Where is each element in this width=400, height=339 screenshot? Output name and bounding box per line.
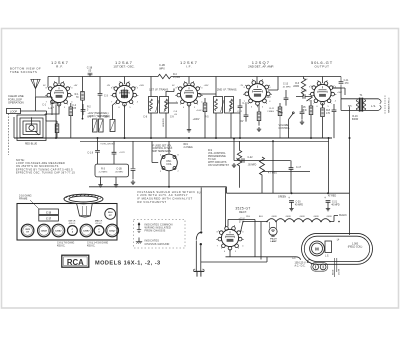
wire V6 cathode down xyxy=(229,249,231,257)
legend dashed box xyxy=(134,220,186,249)
svg-text:L.S.: L.S. xyxy=(371,104,376,108)
wire V5 plate to T1 xyxy=(332,88,345,95)
heater vertical text xyxy=(162,118,165,127)
svg-text:2.2 MEG: 2.2 MEG xyxy=(184,147,193,149)
junction dots xyxy=(55,118,351,194)
svg-text:L.S.: L.S. xyxy=(325,256,329,258)
capacitor C-18 xyxy=(89,74,91,77)
wire hum neut leads xyxy=(335,258,337,277)
wire V5 screen riser xyxy=(322,77,324,84)
wire grid return line xyxy=(262,172,310,194)
ground C-21 xyxy=(326,206,330,211)
svg-text:C-21: C-21 xyxy=(332,202,338,204)
svg-text:R.F.: R.F. xyxy=(56,65,64,69)
ground under coupling xyxy=(232,163,236,168)
svg-text:MODELS 16X-1, -2, -3: MODELS 16X-1, -2, -3 xyxy=(95,261,161,267)
capacitor block C-17 xyxy=(39,215,59,221)
wire AVC bus xyxy=(80,140,329,142)
svg-text:2 MEG: 2 MEG xyxy=(267,111,274,113)
svg-text:COIL: COIL xyxy=(166,163,172,166)
resistor R-4 in B+ line xyxy=(158,74,171,78)
loudspeaker with field coil xyxy=(302,233,373,264)
chassis layout box xyxy=(17,204,117,241)
svg-text:455 KC.: 455 KC. xyxy=(57,246,66,248)
capacitor block C-15 xyxy=(39,209,59,215)
wire V3 plate riser xyxy=(188,77,190,85)
svg-text:SEC: SEC xyxy=(348,105,353,107)
wire osc coil leads xyxy=(152,141,169,187)
tube V6 35Z5GT rectifier xyxy=(216,225,244,252)
wire T2 secondaries down xyxy=(151,113,166,139)
svg-text:C-20: C-20 xyxy=(296,202,302,204)
electrolytic C-22a xyxy=(113,141,115,152)
svg-text:+8V: +8V xyxy=(74,85,78,87)
resistor R-7 grid xyxy=(309,106,313,115)
wire T3 primary riser xyxy=(199,77,216,97)
svg-text:600W: 600W xyxy=(352,118,359,121)
wire right column x328.5 xyxy=(328,138,330,193)
svg-text:AMP TERMINALS: AMP TERMINALS xyxy=(152,150,171,153)
wire T3 secondaries down xyxy=(216,113,231,139)
T1 core xyxy=(359,98,362,112)
resistor R-6 zigzag xyxy=(301,77,305,97)
svg-text:WPX: WPX xyxy=(159,67,165,70)
wire V6 loop xyxy=(226,220,301,260)
junction to speaker field xyxy=(349,193,351,235)
socket circle 5 xyxy=(80,224,93,237)
wire V6 plate riser xyxy=(226,188,229,228)
svg-text:12SK7: 12SK7 xyxy=(83,231,90,233)
svg-text:C-17: C-17 xyxy=(296,167,302,169)
svg-text:GRN: GRN xyxy=(286,216,291,218)
svg-text:C-15: C-15 xyxy=(302,91,308,93)
wire V3 cathode down xyxy=(188,105,190,128)
svg-text:C-15: C-15 xyxy=(46,212,52,214)
svg-text:TUBE SOCKETS: TUBE SOCKETS xyxy=(10,70,37,74)
wire audio line xyxy=(234,160,291,162)
svg-text:OR VOLTOHMYST: OR VOLTOHMYST xyxy=(137,200,167,204)
svg-text:P.U.: P.U. xyxy=(197,193,202,195)
svg-text:BOTTOM VIEW OF: BOTTOM VIEW OF xyxy=(10,67,41,71)
svg-text:GRN: GRN xyxy=(314,216,319,218)
wire T1 return column xyxy=(349,107,351,194)
svg-text:1ST I.F. TRANS.: 1ST I.F. TRANS. xyxy=(149,87,169,91)
wire V1 plate to bus xyxy=(48,77,59,87)
socket 50L6GT top right xyxy=(105,209,116,220)
wire heater feed xyxy=(243,221,267,223)
svg-text:C-12: C-12 xyxy=(237,111,243,113)
wire V2 cathode riser xyxy=(112,102,125,139)
svg-text:40 MFD: 40 MFD xyxy=(331,205,340,207)
svg-text:0V: 0V xyxy=(241,121,244,123)
oscillator coil L2 xyxy=(161,154,178,171)
svg-text:(FIELD COIL): (FIELD COIL) xyxy=(348,246,363,249)
svg-text:RED·BLUE: RED·BLUE xyxy=(25,143,37,146)
capacitor C-4 xyxy=(81,110,86,112)
svg-text:2.2 MEG: 2.2 MEG xyxy=(99,172,108,174)
wire antenna coupling xyxy=(36,97,60,115)
wire lower bus xyxy=(89,187,350,193)
ground R-6 xyxy=(257,127,261,132)
svg-text:M: M xyxy=(315,246,319,251)
svg-text:+90V: +90V xyxy=(139,85,145,87)
svg-text:GRN: GRN xyxy=(327,216,332,218)
svg-text:455 KC: 455 KC xyxy=(69,223,76,225)
speaker plug bracket xyxy=(379,99,382,111)
capacitor C-19 xyxy=(95,151,100,153)
wire T1 bottom to filter xyxy=(349,109,351,111)
tube V3 12SK7 IF amplifier xyxy=(175,81,203,108)
tube V2 12SA7 converter xyxy=(111,81,139,108)
svg-text:EFFECTIVE OSC. TUNING CAP 3: EFFECTIVE OSC. TUNING CAP 367-77.15 xyxy=(16,171,75,174)
resistor R-1 xyxy=(82,77,84,92)
svg-text:RECT.: RECT. xyxy=(239,210,247,214)
capacitor C-10 xyxy=(238,106,243,108)
svg-text:GRN: GRN xyxy=(272,216,277,218)
svg-text:C-1.8: C-1.8 xyxy=(87,153,93,155)
RCA logo box xyxy=(62,255,89,267)
svg-text:250 W: 250 W xyxy=(338,269,340,275)
capacitor right of couplate xyxy=(132,141,134,168)
svg-text:R-11: R-11 xyxy=(269,108,274,110)
speaker terminal strip xyxy=(325,241,332,253)
ground C-20 xyxy=(289,206,293,211)
svg-text:C-10: C-10 xyxy=(242,102,248,105)
svg-text:C-8 & 7-8 GANG: C-8 & 7-8 GANG xyxy=(57,242,74,245)
capacitor C-11 xyxy=(340,77,342,89)
wire top B+ bus xyxy=(48,76,341,78)
svg-text:C-11: C-11 xyxy=(344,80,350,82)
cathode resistor R-8 xyxy=(321,108,325,117)
svg-text:FRAME: FRAME xyxy=(19,197,28,200)
resistor R-2 below V1 xyxy=(70,103,72,107)
svg-text:+: + xyxy=(288,196,290,200)
IF transformer T3 windings xyxy=(214,97,223,114)
svg-text:+90V: +90V xyxy=(265,97,271,99)
svg-text:2ND DET., AF. AMP.: 2ND DET., AF. AMP. xyxy=(248,65,274,69)
wire power cord xyxy=(196,241,267,272)
svg-text:BLUE: BLUE xyxy=(332,269,334,275)
loop terminal box xyxy=(7,109,21,114)
capacitor C-22 in audio line xyxy=(242,158,244,163)
svg-text:455 KC: 455 KC xyxy=(95,223,102,225)
T1 secondary coil xyxy=(363,100,366,110)
wire V2 plate to bus xyxy=(124,77,126,85)
zigzag junction dots xyxy=(266,221,340,223)
wire V5 plate to T1 xyxy=(332,88,341,99)
resistor R-6 xyxy=(257,112,261,121)
text hum neut coil (vertical) xyxy=(332,269,340,275)
svg-text:1ST DET.- OSC.: 1ST DET.- OSC. xyxy=(113,65,134,69)
svg-text:+95V: +95V xyxy=(204,85,210,87)
socket circle 6 xyxy=(94,226,104,236)
svg-text:+100V: +100V xyxy=(193,119,200,121)
svg-text:170: 170 xyxy=(326,112,331,115)
svg-text:220M: 220M xyxy=(293,86,299,88)
socket circle 3 xyxy=(52,224,65,237)
svg-text:HEATER: HEATER xyxy=(162,118,165,127)
AC plug xyxy=(311,263,328,272)
tone capacitor C-14 xyxy=(300,112,305,114)
capacitor C-12 grid xyxy=(244,115,249,117)
svg-text:455 KC.: 455 KC. xyxy=(87,246,96,248)
svg-text:.05 MFD: .05 MFD xyxy=(115,172,124,174)
svg-text:CHASSIS GROUND: CHASSIS GROUND xyxy=(145,243,170,246)
svg-text:A.C.- D.C.: A.C.- D.C. xyxy=(295,265,306,268)
antenna symbol xyxy=(31,79,40,97)
T1 primary coil xyxy=(356,100,359,110)
svg-text:C-9 & 1-4 5-8 GANG: C-9 & 1-4 5-8 GANG xyxy=(87,242,108,245)
svg-text:MFD: MFD xyxy=(302,110,307,112)
svg-text:C-22: C-22 xyxy=(248,157,254,159)
tube V1 12SK7 RF amplifier xyxy=(45,81,73,108)
wire diode load xyxy=(231,113,240,139)
dashed shield line xyxy=(7,114,9,156)
svg-text:I.F.: I.F. xyxy=(186,65,192,69)
switch on volume control xyxy=(289,114,294,139)
legend chassis ground symbol xyxy=(138,238,140,242)
svg-text:SPEAKER PLUG: SPEAKER PLUG xyxy=(388,97,391,113)
svg-text:Y1 R1-CHOKE: Y1 R1-CHOKE xyxy=(100,144,115,146)
T1 frame wires xyxy=(341,99,379,111)
svg-text:LAMP: LAMP xyxy=(270,240,277,243)
resistor R-5 xyxy=(203,103,207,112)
antenna lead down xyxy=(35,97,37,111)
svg-text:+90V: +90V xyxy=(337,92,343,94)
power switch S1 xyxy=(200,188,202,231)
couplate leads xyxy=(101,177,117,183)
wire V5 grid xyxy=(307,97,313,101)
svg-text:40 MFD: 40 MFD xyxy=(295,205,304,207)
IF transformer T2 windings xyxy=(149,97,158,114)
svg-text:12SA7: 12SA7 xyxy=(41,230,48,233)
couplate box xyxy=(95,164,129,177)
svg-text:BLK: BLK xyxy=(259,216,264,218)
wire main B- bus xyxy=(14,137,332,139)
wire loop top tap xyxy=(45,116,47,121)
svg-text:VOLUME: VOLUME xyxy=(279,125,289,127)
volume potentiometer R-8 xyxy=(237,141,241,188)
ground C-14 xyxy=(300,120,304,125)
ballast / heater string zigzag xyxy=(267,219,330,222)
wire V1-audio coupling drop xyxy=(233,139,235,161)
svg-text:+: + xyxy=(324,196,326,200)
socket circle 7 xyxy=(106,224,119,237)
trimmer capacitors C-5 C-6 xyxy=(93,119,98,132)
svg-text:C-13: C-13 xyxy=(283,84,289,86)
ground symbols under couplate xyxy=(98,183,102,188)
wire heater drop xyxy=(260,222,262,260)
capacitor C-15 coupling xyxy=(296,96,312,98)
svg-text:R19: R19 xyxy=(184,144,189,146)
wire loop to bus xyxy=(14,111,47,138)
speaker top view cone xyxy=(64,194,103,203)
svg-text:AT RED: AT RED xyxy=(328,195,337,198)
svg-text:OUTPUT: OUTPUT xyxy=(315,65,330,69)
capacitor C-3 xyxy=(99,77,101,94)
svg-text:BLACK: BLACK xyxy=(339,214,347,217)
svg-text:LOOP: LOOP xyxy=(10,109,17,113)
svg-text:+3.2V: +3.2V xyxy=(119,152,125,154)
svg-text:C-3: C-3 xyxy=(104,95,109,98)
svg-text:C-1B: C-1B xyxy=(116,168,122,170)
capacitor C-13 xyxy=(284,98,289,100)
svg-text:GRN: GRN xyxy=(300,216,305,218)
wire T2 primary riser xyxy=(151,77,174,97)
svg-text:2ND I.F. TRANS.: 2ND I.F. TRANS. xyxy=(217,87,238,91)
loop antenna L1 xyxy=(17,115,46,141)
wire V4 plate riser xyxy=(257,77,278,91)
resistor R-17 loop shunt xyxy=(56,121,58,124)
wire V3 grid connection xyxy=(166,102,178,104)
svg-text:.01 MFD: .01 MFD xyxy=(282,87,291,89)
svg-text:S.P.: S.P. xyxy=(292,258,296,260)
svg-text:12SA7: 12SA7 xyxy=(55,230,62,233)
volume control R-9 xyxy=(279,103,281,107)
svg-text:+100 V: +100 V xyxy=(196,110,204,112)
tube V5 50L6GT output xyxy=(309,80,337,107)
capacitor C-17 drop xyxy=(290,161,292,194)
resistor R-8 4.7 meg xyxy=(260,157,265,176)
svg-text:RCA: RCA xyxy=(67,258,84,267)
svg-text:GREEN: GREEN xyxy=(278,196,287,198)
svg-text:FROM CHASSIS: FROM CHASSIS xyxy=(145,230,166,233)
pointer line gang frame xyxy=(30,200,39,209)
capacitor C-16 xyxy=(332,110,337,112)
wall plug xyxy=(193,269,204,271)
svg-text:ON VOLTOHMYST: ON VOLTOHMYST xyxy=(208,164,229,167)
field coil magnet M xyxy=(310,241,325,256)
wire V1 cathode to bus xyxy=(45,104,59,138)
socket circle 4 xyxy=(68,226,78,236)
wire V6 heater to string xyxy=(241,222,244,233)
socket circle 2 xyxy=(38,224,51,237)
svg-text:C-17: C-17 xyxy=(46,219,52,221)
svg-text:12SQ7: 12SQ7 xyxy=(109,231,116,233)
wire black lead xyxy=(330,216,338,222)
pilot lamp xyxy=(269,227,277,235)
ground V3 cathode xyxy=(187,128,191,133)
svg-text:OPERATION: OPERATION xyxy=(8,101,24,105)
svg-text:IF USED SET VOL: IF USED SET VOL xyxy=(152,145,172,147)
svg-text:15,000: 15,000 xyxy=(173,77,181,79)
socket circle 1 xyxy=(21,224,34,237)
svg-text:.05 MFD: .05 MFD xyxy=(248,165,257,167)
svg-text:35Z5-GT: 35Z5-GT xyxy=(235,206,250,210)
oscillator padder C-7 xyxy=(110,120,115,132)
tube V4 12SQ7 detector/1st audio xyxy=(243,79,272,107)
svg-text:CONTROL AT MAX: CONTROL AT MAX xyxy=(152,147,173,150)
legend insulated-ground symbol xyxy=(138,223,140,230)
wire drop x273 xyxy=(272,141,274,193)
